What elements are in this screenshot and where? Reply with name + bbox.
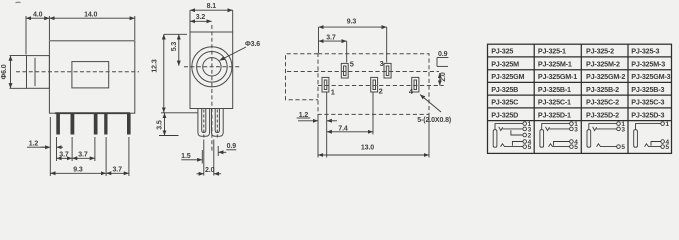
lug 5 [341, 63, 348, 78]
ring contact wire terminal 5 with spring [645, 144, 661, 147]
dim 8.1 [189, 10, 191, 31]
svg-text:3.5: 3.5 [157, 120, 164, 130]
terminal numbers cell4 [666, 121, 670, 151]
svg-text:2: 2 [379, 87, 383, 96]
VIEW 2 : front view [184, 25, 240, 152]
svg-text:5: 5 [528, 144, 532, 151]
make contact terminal 4 [512, 142, 523, 146]
pin left view2 [198, 109, 210, 137]
svg-text:5.3: 5.3 [171, 42, 178, 52]
svg-text:3.7: 3.7 [59, 151, 69, 158]
pin 2 [71, 113, 75, 134]
dimensions view1 [10, 16, 199, 176]
svg-text:PJ-325C-3: PJ-325C-3 [631, 98, 664, 107]
ext lines top [318, 27, 320, 53]
wire sleeve to terminal 1 [542, 124, 570, 130]
svg-text:PJ-325D-1: PJ-325D-1 [538, 110, 571, 119]
lug 3 [384, 63, 391, 78]
table outer border [488, 44, 672, 153]
dim 13.0 [318, 154, 429, 156]
pins view1 [56, 113, 130, 134]
lower lug row line [318, 85, 444, 87]
svg-text:3: 3 [380, 59, 384, 68]
barrel step line [34, 58, 36, 86]
dim 3.7 view3 [319, 40, 347, 42]
svg-text:PJ-325: PJ-325 [491, 47, 513, 56]
terminal numbers cell3 [621, 121, 625, 151]
svg-text:PJ-325M: PJ-325M [491, 60, 519, 69]
ring circle [197, 52, 228, 83]
svg-text:PJ-325GM-2: PJ-325GM-2 [586, 72, 625, 81]
terminal circles cell2 [570, 122, 574, 126]
svg-text:3.7: 3.7 [112, 166, 122, 173]
SCHEMATIC CELL 3 [587, 122, 620, 149]
dim 7.4 [327, 131, 373, 133]
dim 9.3 view3 [319, 26, 387, 28]
svg-text:PJ-325B-2: PJ-325B-2 [586, 85, 619, 94]
svg-text:PJ-325M-3: PJ-325M-3 [631, 60, 665, 69]
pin 5 [127, 113, 131, 134]
tip contact wire terminal 3 [499, 127, 503, 131]
scan speck [16, 1, 21, 4]
svg-text:1.2: 1.2 [299, 112, 309, 119]
terminal circles cell1 [523, 122, 527, 126]
svg-text:PJ-325-1: PJ-325-1 [538, 47, 566, 56]
dim 0.9 view3 [437, 57, 448, 59]
dim 3.7 3.7 line [57, 157, 73, 159]
svg-text:PJ-325C: PJ-325C [491, 98, 518, 107]
outer circle [192, 47, 232, 87]
svg-text:0.9: 0.9 [227, 143, 237, 150]
pin right view2 [212, 109, 224, 137]
svg-text:PJ-325-3: PJ-325-3 [631, 47, 659, 56]
terminal circles cell3 [617, 122, 621, 126]
body dashed outline view3 [318, 54, 429, 115]
make contact terminal 4 [651, 142, 661, 146]
dims view2 [181, 10, 246, 175]
dim 0.9 [226, 149, 236, 151]
lug 2 [371, 77, 378, 92]
svg-text:PJ-325M-1: PJ-325M-1 [538, 60, 572, 69]
svg-text:3: 3 [621, 126, 625, 133]
table texts [491, 47, 670, 120]
wire sleeve to terminal 1 [636, 124, 661, 130]
inner circle [203, 58, 221, 76]
pin 3 [94, 113, 98, 134]
svg-text:5: 5 [574, 144, 578, 151]
svg-text:PJ-325M-2: PJ-325M-2 [586, 60, 620, 69]
svg-text:2.0: 2.0 [440, 72, 447, 82]
dim 9.3 line [50, 172, 106, 174]
leader 5-(2.0X0.8) [420, 95, 441, 113]
terminal circles cell4 [661, 122, 665, 126]
svg-text:12.3: 12.3 [152, 59, 159, 72]
SCHEMATIC CELL 2 [540, 122, 573, 149]
dim 4.0 ext lines [25, 16, 27, 55]
svg-text:5: 5 [350, 60, 354, 69]
dim phi6.0 ext + line [10, 55, 27, 57]
svg-text:5: 5 [666, 144, 670, 151]
upper lug row line [287, 71, 439, 73]
svg-text:1: 1 [666, 121, 670, 128]
svg-text:4.0: 4.0 [33, 11, 43, 18]
svg-text:PJ-325-2: PJ-325-2 [586, 47, 614, 56]
body bottom face edge view1 [55, 112, 130, 114]
dim 1.5 [181, 159, 190, 161]
dim 1.2 left [27, 146, 47, 148]
svg-text:7.4: 7.4 [338, 125, 348, 132]
centerline h view2 [184, 66, 240, 68]
dim 5.3 [178, 34, 180, 66]
svg-text:1.5: 1.5 [181, 153, 191, 160]
terminal numbers cell2 [574, 121, 578, 151]
svg-text:PJ-325B-3: PJ-325B-3 [631, 85, 664, 94]
svg-text:1: 1 [331, 88, 335, 97]
lug number labels [331, 59, 414, 97]
jack sleeve S4 [634, 130, 638, 148]
TABLE [488, 44, 672, 153]
inner rectangle detail [72, 62, 109, 88]
lug 4 [412, 77, 419, 92]
dim 12.3 [164, 33, 187, 35]
svg-text:Φ3.6: Φ3.6 [245, 41, 260, 48]
svg-text:PJ-325GM-3: PJ-325GM-3 [631, 72, 670, 81]
jack sleeve S3 [587, 130, 591, 148]
dim 4.0 line [26, 17, 49, 19]
barrel dashed outline view3 [286, 54, 319, 100]
svg-text:4: 4 [409, 87, 414, 96]
svg-text:14.0: 14.0 [84, 11, 97, 18]
dim texts view1 [1, 11, 178, 173]
dim 1.2 view3 [297, 117, 311, 119]
svg-text:3: 3 [574, 126, 578, 133]
svg-text:8.1: 8.1 [207, 3, 217, 10]
ring contact wire terminal 5 with spring [549, 144, 570, 147]
svg-text:9.3: 9.3 [73, 166, 83, 173]
SCHEMATIC CELL 1 [493, 122, 526, 149]
ring contact wire terminal 5 with spring [501, 144, 523, 147]
svg-text:5: 5 [621, 144, 625, 151]
svg-text:13.0: 13.0 [361, 145, 374, 152]
lug 1 [322, 77, 329, 92]
dim 2.0 view3 [439, 73, 441, 86]
svg-text:PJ-325D-2: PJ-325D-2 [586, 110, 619, 119]
svg-text:PJ-325B: PJ-325B [491, 85, 518, 94]
svg-text:9.3: 9.3 [347, 19, 357, 26]
wire sleeve to terminal 1 [495, 124, 523, 130]
wire sleeve to terminal 1 [589, 124, 617, 130]
svg-text:3.2: 3.2 [196, 14, 206, 21]
column separators [533, 44, 535, 153]
pin 1 [56, 113, 60, 134]
row separators [488, 56, 672, 58]
SCHEMATIC CELL 4 [634, 122, 665, 149]
ext lines below pins [49, 117, 51, 176]
jack sleeve S1 [493, 130, 497, 148]
svg-text:1.2: 1.2 [29, 141, 39, 148]
dim 2.0 exts [203, 140, 205, 176]
tip contact wire terminal 3 [593, 127, 597, 131]
barrel (bushing) view1 [27, 56, 50, 89]
dim 14.0 line [49, 17, 134, 19]
svg-text:PJ-325D-3: PJ-325D-3 [631, 110, 664, 119]
jack sleeve S2 [540, 130, 544, 148]
svg-text:3.7: 3.7 [78, 151, 88, 158]
svg-text:PJ-325GM-1: PJ-325GM-1 [538, 72, 577, 81]
svg-text:PJ-325GM: PJ-325GM [491, 72, 524, 81]
ext lines bottom view3 [317, 114, 319, 157]
make contact terminal 4 [554, 142, 570, 146]
dim 3.7 right line [106, 172, 129, 174]
centerline view1 [16, 71, 139, 73]
terminal numbers cell1 [528, 121, 532, 151]
svg-text:5-(2.0X0.8): 5-(2.0X0.8) [417, 117, 451, 124]
svg-text:3.7: 3.7 [326, 35, 336, 42]
ring contact wire terminal 5 with spring [597, 144, 617, 147]
body outline view1 [49, 41, 134, 113]
svg-text:Φ6.0: Φ6.0 [1, 64, 8, 79]
dim 3.2 [190, 20, 212, 22]
dims view3 [297, 27, 449, 157]
svg-text:2.0: 2.0 [205, 167, 215, 174]
svg-text:PJ-325D: PJ-325D [491, 110, 518, 119]
dim 3.5 [161, 112, 198, 114]
svg-text:0.9: 0.9 [438, 51, 448, 58]
pin 4 [104, 113, 107, 134]
body outline view2 [190, 32, 233, 109]
break contact terminal 2 [511, 130, 523, 135]
VIEW 3 : bottom view [286, 54, 444, 115]
tip contact wire terminal 3 [546, 127, 550, 131]
svg-text:PJ-325C-1: PJ-325C-1 [538, 98, 571, 107]
svg-text:PJ-325B-1: PJ-325B-1 [538, 85, 571, 94]
leader phi3.6 [220, 47, 247, 61]
centerline v view2 [211, 25, 213, 152]
svg-text:PJ-325C-2: PJ-325C-2 [586, 98, 619, 107]
